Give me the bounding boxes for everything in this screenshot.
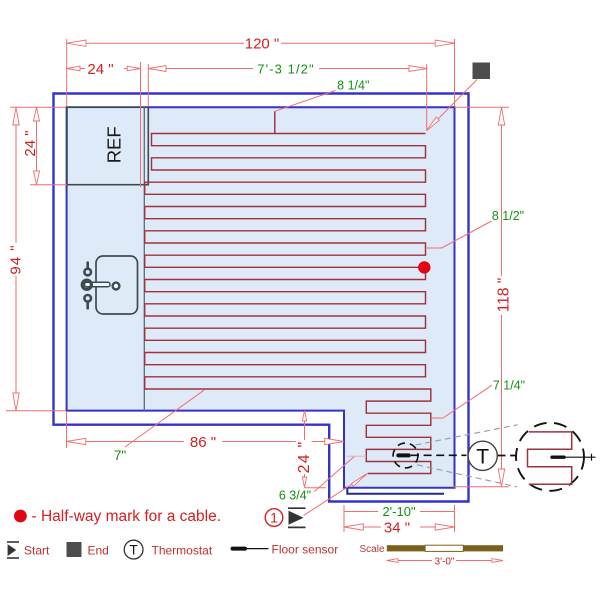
svg-text:Floor sensor: Floor sensor [272, 543, 339, 557]
dim 24 top line [67, 68, 141, 70]
svg-text:7 1/4": 7 1/4" [493, 379, 525, 393]
svg-text:REF: REF [104, 126, 125, 163]
cable cold-lead riser [274, 111, 276, 133]
svg-text:6 3/4": 6 3/4" [279, 489, 311, 503]
arrows 86 [67, 438, 86, 444]
legend end square [67, 542, 82, 557]
svg-text:8 1/2": 8 1/2" [492, 209, 524, 223]
svg-text:120 ": 120 " [245, 35, 280, 52]
svg-text:7'-3 1/2": 7'-3 1/2" [257, 62, 314, 77]
arrows 24 ref [34, 107, 40, 121]
arrows 3-0 [387, 559, 398, 563]
dim 7-3.5 line [148, 68, 426, 70]
arrows 24 notch [302, 411, 306, 421]
dim 34 line [344, 526, 455, 528]
svg-text:3'-0": 3'-0" [435, 557, 455, 568]
floor sensor dot in plan [398, 453, 409, 457]
sink basin [96, 256, 138, 314]
arrows 118 [498, 107, 504, 125]
dim 3-0 scale line [387, 560, 503, 562]
leader 7 inch [125, 390, 204, 447]
dim 120 ext lines [66, 39, 68, 106]
arrow start leader [352, 474, 367, 487]
detail cone lines [416, 425, 518, 445]
dim 24 ref line [36, 107, 38, 184]
leader start [304, 475, 367, 516]
svg-text:2'-10": 2'-10" [382, 504, 416, 519]
arrows 24 top [67, 66, 80, 71]
end marker square [473, 63, 491, 80]
svg-text:8 1/4": 8 1/4" [337, 79, 369, 93]
svg-text:7": 7" [114, 448, 127, 463]
leader 8 1/2 [427, 221, 492, 248]
dim 86 line [67, 441, 345, 443]
dashed line sensor to thermostat [411, 454, 467, 456]
leader 6 3/4 [314, 456, 354, 491]
svg-text:Start: Start [24, 544, 50, 558]
legend thermostat [124, 540, 143, 559]
svg-text:Thermostat: Thermostat [152, 544, 213, 558]
svg-text:34 ": 34 " [384, 520, 410, 537]
svg-text:86 ": 86 " [190, 434, 216, 451]
heated area inner outline [67, 107, 455, 487]
legend floor sensor [233, 547, 246, 551]
legend half-way dot [14, 510, 27, 523]
thermostat circle [468, 441, 497, 470]
arrows 94 [13, 107, 19, 125]
svg-text:24 ": 24 " [87, 61, 113, 78]
refrigerator REF box [67, 107, 148, 184]
svg-text:- Half-way mark for a cable.: - Half-way mark for a cable. [32, 508, 222, 525]
svg-text:118 ": 118 " [496, 278, 513, 313]
sink faucet base [82, 280, 91, 289]
svg-text:T: T [476, 446, 489, 469]
svg-text:Scale: Scale [360, 544, 385, 555]
svg-text:T: T [129, 543, 137, 558]
start marker symbol [288, 508, 306, 527]
svg-text:1: 1 [270, 510, 278, 526]
circled 1 [265, 509, 283, 527]
dim 24 notch line [304, 411, 306, 488]
green dim texts [114, 62, 525, 520]
dimensions group [6, 39, 509, 561]
dim 2-10 line [344, 511, 455, 513]
arrows 34 [344, 524, 363, 530]
arrows 120 [67, 40, 86, 46]
dim 120 line [67, 42, 455, 44]
heating cable serpentine [145, 134, 431, 474]
scale bar [387, 545, 425, 551]
leader 8 1/4 [275, 91, 336, 112]
half-way mark red dot [418, 261, 430, 273]
leader end marker [427, 80, 477, 131]
dim text backgrounds [8, 36, 511, 567]
detail cable [528, 432, 572, 484]
sensor dashed circle [393, 443, 418, 468]
dim red texts [8, 35, 513, 536]
detail sensor [552, 456, 564, 459]
sink bottom valve [84, 295, 91, 302]
detail big dashed circle [516, 423, 584, 491]
svg-text:24 ": 24 " [296, 441, 313, 474]
svg-text:24 ": 24 " [22, 130, 39, 156]
sink top valve [84, 269, 91, 276]
svg-text:94 ": 94 " [8, 244, 25, 274]
arrows 7-3.5 [148, 66, 166, 72]
heated zone boundary line [143, 107, 145, 410]
dimension arrows [13, 40, 505, 562]
svg-text:End: End [88, 544, 109, 558]
dim 118 line [501, 107, 503, 487]
sensor wire navy [347, 489, 444, 494]
sink drain circle [113, 283, 120, 290]
legend start symbol [7, 542, 19, 558]
room outer wall [54, 94, 469, 502]
dim 94 line [15, 107, 17, 411]
arrow end leader [427, 117, 440, 130]
leader 7 1/4 [431, 385, 492, 418]
sink faucet arm [85, 282, 111, 287]
